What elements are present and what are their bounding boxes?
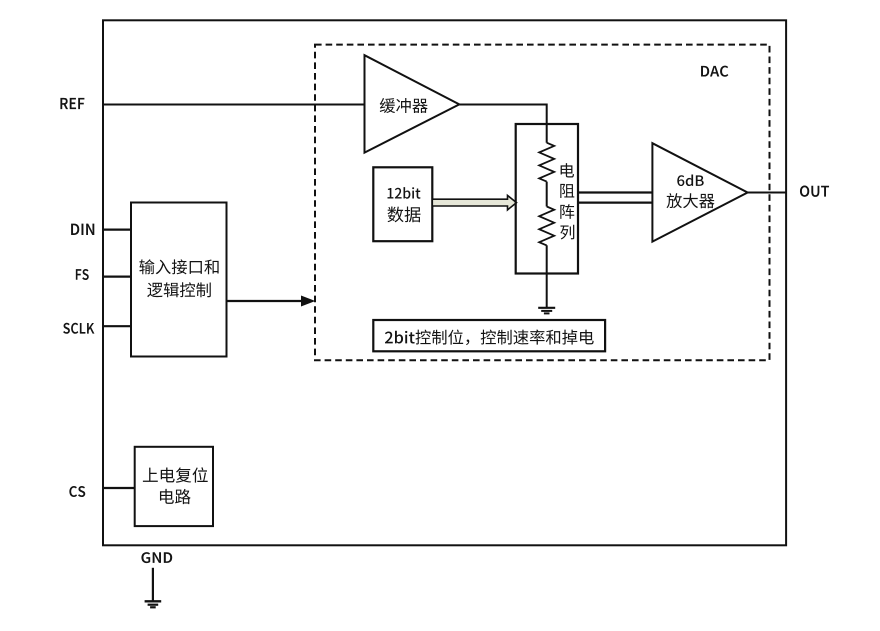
box resistor array 电阻阵列 (516, 124, 578, 274)
arrow logic control to DAC block (227, 300, 303, 302)
wire between resistors (546, 182, 548, 207)
pin label GND (141, 552, 172, 563)
wire resistor bottom to ground (546, 245, 548, 307)
pin label REF (60, 98, 84, 109)
wire REF to buffer (103, 104, 365, 106)
GND stem wire (152, 568, 154, 602)
wire amplifier to OUT (748, 192, 786, 194)
DAC dashed boundary (315, 45, 770, 361)
wire DIN (103, 229, 131, 231)
pin label DIN (71, 224, 94, 235)
ground under resistor array (538, 307, 555, 309)
double line resistor array to amplifier (578, 191, 652, 193)
block arrow 12bit data to resistor array (432, 195, 516, 210)
ground symbol GND (145, 600, 162, 602)
box 12bit data (373, 167, 432, 241)
pin label OUT (800, 186, 829, 197)
op-amp buffer 缓冲器 (365, 55, 460, 152)
resistor R lower zigzag (539, 207, 554, 246)
wire FS (103, 276, 131, 278)
box input interface and logic control (131, 203, 227, 357)
pin label SCLK (63, 323, 94, 334)
op-amp 6dB amplifier (652, 143, 747, 241)
wire buffer output to resistor array (459, 105, 546, 143)
resistor R upper zigzag (539, 143, 554, 182)
wire CS (103, 487, 135, 489)
pin label FS (76, 269, 89, 280)
pin label CS (69, 486, 85, 497)
wire SCLK (103, 325, 131, 327)
chip outer boundary (103, 20, 786, 545)
box 2bit control bits (373, 320, 605, 351)
box power-on reset 上电复位电路 (135, 447, 213, 526)
label DAC (701, 66, 728, 77)
